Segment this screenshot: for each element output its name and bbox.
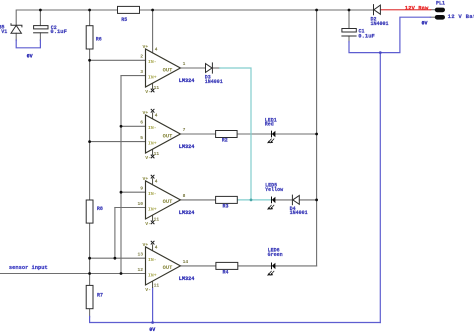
svg-text:V+: V+ bbox=[143, 176, 149, 182]
resistor R6 bbox=[86, 26, 93, 49]
svg-text:0V: 0V bbox=[149, 327, 155, 333]
svg-text:4: 4 bbox=[155, 113, 158, 119]
wire top supply rail right segment bbox=[140, 9, 373, 11]
pin stub U1:C V- pin 11 bbox=[152, 215, 154, 221]
svg-text:LM324: LM324 bbox=[179, 144, 195, 150]
svg-text:11: 11 bbox=[154, 283, 160, 289]
node op-amp2 IN- junction bbox=[120, 125, 123, 128]
svg-text:Red: Red bbox=[265, 121, 274, 127]
svg-text:R7: R7 bbox=[97, 292, 103, 298]
pin stub U1:C V+ pin 4 bbox=[152, 178, 154, 185]
svg-text:0.1uF: 0.1uF bbox=[50, 28, 67, 35]
node cyan junction R3-LED5 bbox=[250, 199, 253, 202]
svg-text:4: 4 bbox=[155, 244, 158, 250]
capacitor C2 bbox=[34, 26, 48, 33]
svg-text:6: 6 bbox=[140, 120, 143, 126]
svg-text:IN+: IN+ bbox=[148, 206, 157, 212]
wire top supply rail left segment bbox=[16, 10, 117, 25]
svg-text:11: 11 bbox=[154, 217, 160, 223]
node sensor R7 junction bbox=[88, 272, 91, 275]
LED5 Yellow symbol bbox=[271, 197, 275, 204]
svg-text:Green: Green bbox=[268, 252, 283, 258]
node blue junction C1 0V bbox=[379, 51, 382, 54]
node op-amp2 IN+ junction bbox=[88, 140, 91, 143]
zener diode V1 bbox=[11, 24, 22, 33]
wire op-amp3 IN+ horizontal bbox=[115, 207, 146, 209]
pin stub U1:B V- pin 11 bbox=[152, 149, 154, 155]
svg-text:2: 2 bbox=[140, 54, 143, 60]
svg-text:V+: V+ bbox=[143, 242, 149, 248]
svg-text:7: 7 bbox=[183, 127, 186, 133]
svg-text:R2: R2 bbox=[222, 138, 228, 144]
svg-text:12V Raw: 12V Raw bbox=[405, 4, 429, 11]
svg-text:Yellow: Yellow bbox=[265, 187, 283, 193]
wire R6 top lead bbox=[89, 10, 91, 26]
svg-text:1: 1 bbox=[183, 61, 186, 67]
pin stub U1:D V- pin 11 to 0V bbox=[152, 281, 154, 288]
diode D3 anode triangle and cathode bar bbox=[206, 63, 213, 73]
diode D4 cathode bar and triangle bbox=[292, 195, 299, 205]
svg-text:V-: V- bbox=[145, 287, 151, 293]
resistor R5 bbox=[118, 6, 140, 13]
node op-amp3 IN- junction bbox=[120, 191, 123, 194]
node right bus rail junction bbox=[315, 9, 318, 12]
no-connect X U1:B V+ pin 4 bbox=[151, 109, 155, 113]
no-connect X U1:A V- pin 11 bbox=[151, 89, 155, 93]
wire op-amp2 IN- horizontal bbox=[121, 125, 146, 127]
node C1 rail junction bbox=[348, 9, 351, 12]
svg-text:9: 9 bbox=[140, 186, 143, 192]
resistor R7 bbox=[86, 285, 93, 308]
svg-text:R6: R6 bbox=[96, 36, 102, 42]
svg-text:V-: V- bbox=[145, 89, 151, 95]
LED6 Green symbol bbox=[271, 263, 275, 270]
svg-text:0V: 0V bbox=[27, 54, 33, 60]
wire op-amp1 IN+ horizontal bbox=[121, 75, 146, 77]
wire sensor input horizontal bbox=[0, 273, 146, 275]
svg-text:11: 11 bbox=[154, 85, 160, 91]
LED1 Red symbol bbox=[271, 131, 275, 138]
diode D2 cathode bar and triangle bbox=[374, 5, 381, 15]
wire red 12V Raw D2 to PL1 bbox=[381, 9, 431, 11]
svg-text:13: 13 bbox=[138, 252, 144, 258]
op-amp U1:D LM324 bbox=[138, 241, 195, 293]
node LED1 row bus junction bbox=[315, 133, 318, 136]
node sensor x121 junction bbox=[120, 272, 123, 275]
wire LED1 to right bus bbox=[275, 133, 316, 135]
pin stub U1:D V+ pin 4 bbox=[152, 244, 154, 251]
node op-amp1 V+ rail junction bbox=[151, 9, 154, 12]
svg-text:V-: V- bbox=[145, 155, 151, 161]
op-amp U1:C LM324 bbox=[138, 175, 195, 227]
wire R2 to LED1 bbox=[237, 133, 271, 135]
connector PL1 pin 2 bbox=[435, 15, 445, 20]
no-connect X U1:D V+ pin 4 bbox=[151, 241, 155, 245]
svg-text:8: 8 bbox=[183, 193, 186, 199]
wire op-amp4 IN- horizontal bbox=[90, 257, 146, 259]
svg-text:1N4001: 1N4001 bbox=[205, 79, 223, 85]
svg-text:5: 5 bbox=[140, 135, 143, 141]
svg-text:12: 12 bbox=[138, 267, 144, 273]
svg-text:V1: V1 bbox=[1, 29, 7, 35]
resistor R4 bbox=[216, 262, 238, 269]
no-connect X U1:C V+ pin 4 bbox=[151, 175, 155, 179]
svg-text:R5: R5 bbox=[121, 17, 127, 23]
svg-text:10: 10 bbox=[138, 201, 144, 207]
wire 0V blue C1 bottom horizontal bbox=[349, 17, 431, 52]
svg-text:IN-: IN- bbox=[148, 125, 157, 131]
wire R8 bottom down to sensor node bbox=[89, 223, 91, 285]
svg-text:4: 4 bbox=[155, 47, 158, 53]
svg-text:OUT: OUT bbox=[163, 199, 173, 205]
wire op-amp1 IN- horizontal bbox=[90, 59, 146, 61]
svg-text:IN-: IN- bbox=[148, 59, 157, 65]
wire LED6 to right bus corner bbox=[275, 265, 316, 267]
wire op-amp4 output to R4 bbox=[180, 265, 216, 267]
wire PL1 pin2 lead bbox=[430, 16, 435, 18]
connector PL1 pin 1 bbox=[435, 8, 445, 13]
node R6 top rail junction bbox=[88, 9, 91, 12]
svg-text:OUT: OUT bbox=[163, 133, 173, 139]
svg-text:1N4001: 1N4001 bbox=[371, 21, 389, 27]
wire R4 to LED6 bbox=[238, 265, 271, 267]
wire R6 bottom to R8 node chain bbox=[89, 49, 91, 200]
op-amp U1:B LM324 bbox=[140, 109, 194, 161]
wire 0V blue zener to C2 bottom bbox=[16, 40, 40, 48]
svg-text:LM324: LM324 bbox=[179, 78, 195, 84]
pin stub U1:B V+ pin 4 bbox=[152, 112, 154, 119]
svg-text:IN-: IN- bbox=[148, 257, 157, 263]
wire C1 bottom stub bbox=[348, 36, 350, 42]
wire zener bottom stub bbox=[15, 33, 17, 40]
svg-text:4: 4 bbox=[155, 178, 158, 184]
wire vertical net x=115 OA3 IN+ to OA4 IN- bbox=[114, 208, 116, 259]
node C2 top rail junction bbox=[39, 9, 42, 12]
svg-text:IN-: IN- bbox=[148, 191, 157, 197]
svg-text:V+: V+ bbox=[143, 110, 149, 116]
pin stub U1:A V- pin 11 bbox=[152, 83, 154, 89]
svg-text:11: 11 bbox=[154, 151, 160, 157]
svg-text:OUT: OUT bbox=[163, 67, 173, 73]
svg-text:LM324: LM324 bbox=[179, 210, 195, 216]
wire 0V blue op-amp4 V- down bbox=[152, 288, 154, 323]
svg-text:V+: V+ bbox=[143, 44, 149, 50]
wire right vertical bus 12V bbox=[316, 10, 318, 266]
node D4 row bus junction bbox=[315, 199, 318, 202]
svg-text:sensor input: sensor input bbox=[9, 265, 48, 271]
svg-text:1N4001: 1N4001 bbox=[290, 210, 308, 216]
wire C2 bottom stub bbox=[39, 33, 41, 41]
op-amp U1:A LM324 bbox=[140, 44, 194, 95]
wire 0V blue bottom rail bbox=[90, 317, 381, 323]
wire op-amp2 output to R2 bbox=[180, 133, 215, 135]
svg-text:14: 14 bbox=[183, 259, 189, 265]
svg-text:R8: R8 bbox=[97, 206, 103, 212]
resistor R3 bbox=[216, 196, 238, 203]
wire D4 to right bus bbox=[299, 199, 316, 201]
capacitor C1 bbox=[342, 29, 356, 37]
svg-text:IN+: IN+ bbox=[148, 75, 157, 81]
wire C1 top stub bbox=[348, 10, 350, 29]
wire R7 bottom lead bbox=[89, 309, 91, 317]
wire op-amp3 IN- horizontal bbox=[121, 191, 146, 193]
wire C2 top stub bbox=[39, 10, 41, 26]
svg-text:0V: 0V bbox=[422, 21, 428, 27]
wire op-amp1 output to D3 bbox=[180, 67, 205, 69]
no-connect X U1:C V- pin 11 bbox=[151, 221, 155, 225]
node op-amp4 IN- junction left bbox=[88, 257, 91, 260]
wire op-amp3 output to R3 bbox=[180, 199, 215, 201]
node op-amp4 IN- junction mid bbox=[114, 257, 117, 260]
svg-text:OUT: OUT bbox=[163, 265, 173, 271]
no-connect X U1:B V- pin 11 bbox=[151, 155, 155, 159]
svg-text:0.1uF: 0.1uF bbox=[358, 32, 375, 39]
resistor R2 bbox=[216, 131, 238, 138]
wire 0V blue right vertical long bbox=[379, 53, 381, 323]
svg-text:LM324: LM324 bbox=[179, 276, 195, 282]
resistor R8 bbox=[86, 200, 93, 223]
wire D3 cathode stub bbox=[212, 67, 219, 69]
wire vertical net x=121 OA1 IN+ to sensor bbox=[120, 76, 122, 274]
svg-text:R3: R3 bbox=[223, 204, 229, 210]
svg-text:R4: R4 bbox=[223, 269, 229, 275]
wire LED5 to D4 bbox=[276, 199, 293, 201]
svg-text:3: 3 bbox=[140, 69, 143, 75]
svg-text:IN+: IN+ bbox=[148, 272, 157, 278]
wire op-amp2 IN+ horizontal bbox=[90, 141, 146, 143]
wire PL1 pin1 lead bbox=[430, 9, 435, 11]
svg-text:IN+: IN+ bbox=[148, 141, 157, 147]
node op-amp1 IN- junction bbox=[88, 59, 91, 62]
svg-text:12 V Bat: 12 V Bat bbox=[448, 13, 474, 20]
wire cyan R3 to LED5 bbox=[237, 199, 271, 201]
node blue junction bottom rail bbox=[151, 321, 154, 324]
svg-text:V-: V- bbox=[145, 221, 151, 227]
wire cyan node: D3 output to down-run bbox=[220, 68, 251, 200]
wire op-amp1 V+ pin to rail bbox=[152, 10, 154, 53]
svg-text:PL1: PL1 bbox=[436, 1, 445, 7]
